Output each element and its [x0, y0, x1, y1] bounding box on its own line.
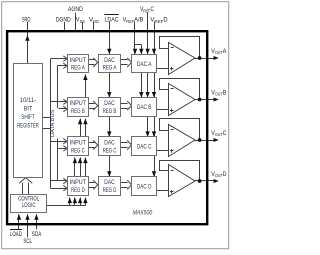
- svg-text:REF: REF: [143, 9, 150, 15]
- svg-text:INPUT: INPUT: [70, 179, 87, 186]
- svg-text:DAC A: DAC A: [137, 61, 152, 68]
- svg-text:DAC C: DAC C: [137, 144, 152, 151]
- svg-text:A: A: [223, 48, 227, 55]
- svg-text:SS: SS: [80, 19, 85, 25]
- svg-text:INPUT: INPUT: [70, 57, 87, 64]
- svg-text:DAC: DAC: [104, 100, 115, 107]
- svg-text:REF: REF: [126, 19, 134, 25]
- svg-text:REG A: REG A: [103, 65, 117, 72]
- svg-text:INPUT: INPUT: [70, 100, 87, 107]
- svg-text:OUT: OUT: [215, 132, 223, 138]
- svg-text:DAC D: DAC D: [137, 183, 152, 190]
- svg-text:DGND: DGND: [56, 16, 71, 23]
- svg-text:DAC B: DAC B: [137, 104, 152, 111]
- svg-text:OUT: OUT: [215, 92, 223, 98]
- svg-text:A/B: A/B: [134, 16, 144, 23]
- svg-text:LDAC: LDAC: [105, 16, 119, 23]
- svg-text:AGND: AGND: [68, 6, 83, 13]
- svg-text:D: D: [163, 16, 167, 23]
- svg-text:DAC: DAC: [104, 179, 115, 186]
- svg-text:LOAD: LOAD: [10, 231, 22, 238]
- svg-text:DATA BUS: DATA BUS: [50, 109, 56, 137]
- svg-text:10/11-: 10/11-: [20, 97, 37, 104]
- svg-text:OUT: OUT: [215, 173, 223, 179]
- svg-text:DAC: DAC: [104, 139, 115, 146]
- svg-text:C: C: [150, 6, 153, 13]
- svg-text:REG B: REG B: [103, 108, 117, 115]
- svg-text:REG C: REG C: [103, 147, 117, 154]
- svg-text:SCL: SCL: [23, 238, 32, 245]
- svg-text:BIT: BIT: [24, 105, 33, 112]
- svg-text:REG B: REG B: [71, 108, 85, 115]
- svg-text:REF: REF: [155, 19, 164, 25]
- svg-text:OUT: OUT: [215, 50, 223, 56]
- svg-text:REGISTER: REGISTER: [17, 123, 39, 130]
- svg-text:DD: DD: [93, 19, 99, 25]
- svg-text:D: D: [223, 171, 227, 178]
- svg-text:INPUT: INPUT: [70, 139, 87, 146]
- svg-text:SDA: SDA: [32, 231, 42, 238]
- svg-text:REG C: REG C: [71, 147, 85, 154]
- svg-text:MAX500: MAX500: [133, 209, 153, 216]
- svg-text:LOGIC: LOGIC: [22, 202, 36, 209]
- svg-text:C: C: [223, 130, 227, 137]
- svg-text:REG D: REG D: [71, 187, 85, 194]
- svg-text:DAC: DAC: [104, 57, 115, 64]
- svg-text:REG A: REG A: [71, 65, 85, 72]
- svg-text:REG D: REG D: [103, 187, 117, 194]
- svg-text:B: B: [223, 89, 227, 96]
- svg-text:SRO: SRO: [22, 16, 31, 23]
- svg-text:SHIFT: SHIFT: [21, 114, 35, 121]
